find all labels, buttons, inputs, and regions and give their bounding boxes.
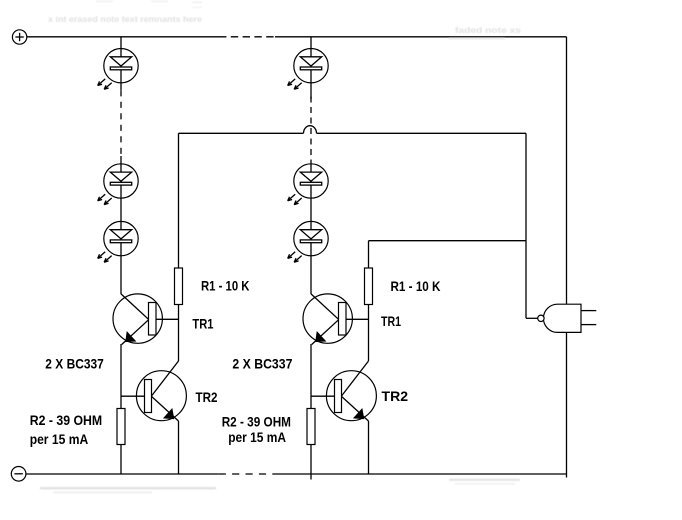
wire vertical x526 gate output riser: [525, 133, 527, 318]
transistor TR2 (right): [326, 361, 376, 421]
svg-text:TR2: TR2: [196, 389, 218, 405]
LED D6: [288, 221, 329, 262]
svg-text:R2 - 39 OHM: R2 - 39 OHM: [30, 412, 103, 428]
resistor R2 (left): [117, 409, 125, 445]
LED D1: [98, 48, 139, 89]
LED D5: [288, 164, 329, 205]
svg-text:TR1: TR1: [381, 313, 401, 329]
svg-text:x int erased note text remnant: x int erased note text remnants here: [48, 14, 202, 24]
wire R1 left top lead: [178, 133, 180, 268]
wire left LED string dashed segment: [120, 90, 122, 156]
wire node line B to right R1: [369, 240, 527, 242]
svg-text:per 15 mA: per 15 mA: [228, 429, 286, 445]
wire right LED string lower segment: [310, 163, 312, 294]
wire left LED string lower segment: [120, 156, 122, 294]
resistor R2 (right): [307, 409, 315, 445]
LED D4: [288, 48, 329, 89]
wire bottom rail left segment: [26, 473, 219, 475]
svg-text:R1 - 10 K: R1 - 10 K: [391, 278, 441, 294]
transistor TR2 (left): [136, 361, 186, 421]
wire bottom rail right segment: [276, 473, 567, 475]
nand gate U1: [538, 304, 581, 332]
wire TR2 right base lead: [311, 395, 335, 397]
wire TR2 right emitter to bottom rail: [368, 421, 370, 474]
svg-text:per 15 mA: per 15 mA: [30, 431, 88, 447]
svg-text:TR2: TR2: [382, 388, 409, 404]
wire R2 left bottom lead: [120, 445, 122, 475]
wire left LED string upper segment: [120, 37, 122, 90]
wire right LED string dashed segment: [310, 97, 312, 164]
svg-text:TR1: TR1: [192, 316, 213, 332]
wire bottom rail dashed segment: [219, 473, 276, 475]
wire right LED string upper segment: [310, 37, 312, 99]
wire TR1 emitter to R2 column (left): [120, 344, 122, 409]
wire top rail left segment: [27, 36, 219, 38]
wire TR1 left base lead: [156, 318, 179, 320]
wire TR1 right base lead: [346, 318, 369, 320]
wire top rail right segment: [275, 36, 567, 38]
wire R1 right bottom lead to TR2 collector: [368, 305, 370, 362]
wire node line A from gate output to R1s: [179, 126, 527, 134]
wire TR2 left base lead: [121, 395, 145, 397]
svg-text:faded note xs: faded note xs: [455, 25, 521, 35]
wire TR2 left emitter to bottom rail: [178, 421, 180, 474]
wire gate output lead: [526, 317, 538, 319]
wire gate input stub 2: [581, 324, 596, 326]
transistor TR1 (right): [303, 294, 352, 345]
transistor TR1 (left): [113, 294, 162, 345]
wire top rail dashed segment: [219, 36, 275, 38]
LED D2: [98, 164, 139, 205]
svg-text:2 X BC337: 2 X BC337: [232, 356, 292, 372]
svg-text:R1 - 10 K: R1 - 10 K: [201, 278, 250, 294]
wire R1 left bottom lead to TR2 collector: [178, 305, 180, 362]
- terminal: [11, 467, 26, 482]
wire gate input stub 1: [581, 310, 596, 312]
resistor R1 (right): [365, 268, 373, 305]
svg-text:R2 - 39 OHM: R2 - 39 OHM: [222, 414, 291, 430]
wire TR1 emitter to R2 column (right): [310, 344, 312, 409]
wire R1 right top lead: [368, 241, 370, 268]
svg-text:2 X BC337: 2 X BC337: [45, 355, 104, 371]
+ terminal: [12, 30, 26, 44]
resistor R1 (left): [175, 268, 183, 305]
wire R2 right bottom lead: [310, 445, 312, 480]
LED D3: [98, 221, 139, 262]
wire right rail: [566, 37, 568, 478]
